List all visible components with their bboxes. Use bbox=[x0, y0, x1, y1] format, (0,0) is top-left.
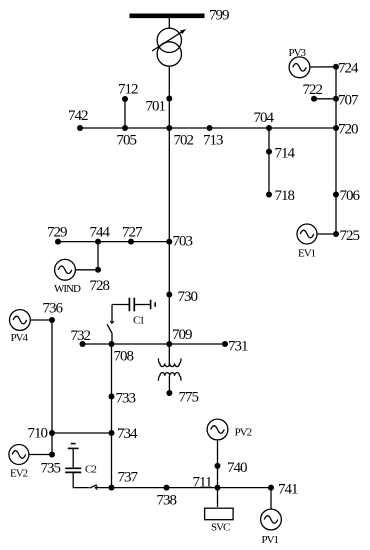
wire bbox=[112, 487, 272, 489]
svg-text:718: 718 bbox=[275, 188, 295, 204]
node 710 bbox=[49, 430, 55, 436]
node 701 bbox=[166, 96, 172, 102]
node 725 bbox=[333, 231, 339, 237]
svg-text:703: 703 bbox=[173, 234, 193, 250]
node 704 bbox=[266, 125, 272, 131]
node 727 bbox=[128, 239, 134, 245]
svg-text:727: 727 bbox=[122, 225, 143, 241]
transformer T1 (709 to 775) bbox=[158, 346, 181, 393]
wire bbox=[75, 269, 98, 271]
wire bbox=[51, 320, 53, 433]
svg-text:EV1: EV1 bbox=[298, 247, 316, 259]
node 741 bbox=[268, 485, 274, 491]
svg-text:C2: C2 bbox=[85, 464, 96, 476]
node 703 bbox=[166, 239, 172, 245]
wire bbox=[168, 66, 170, 128]
wire bbox=[314, 98, 336, 100]
svg-text:705: 705 bbox=[117, 133, 137, 149]
svg-text:732: 732 bbox=[71, 328, 91, 344]
ground (C1) bbox=[151, 300, 156, 310]
wire bbox=[29, 454, 52, 456]
substation bus 799 bbox=[130, 14, 205, 19]
node 713 bbox=[207, 125, 213, 131]
svg-text:708: 708 bbox=[114, 349, 134, 365]
svg-text:733: 733 bbox=[116, 391, 136, 407]
svg-text:707: 707 bbox=[338, 93, 359, 109]
node 740 bbox=[215, 463, 221, 469]
svg-text:711: 711 bbox=[193, 474, 212, 490]
wire bbox=[80, 127, 336, 129]
svg-text:735: 735 bbox=[41, 461, 61, 477]
switch (C1 branch) bbox=[107, 305, 114, 345]
node 735 bbox=[49, 452, 55, 458]
svg-text:704: 704 bbox=[254, 110, 275, 126]
svg-text:PV2: PV2 bbox=[235, 426, 252, 438]
svg-text:709: 709 bbox=[172, 327, 192, 343]
switch (C2 branch) bbox=[90, 485, 112, 490]
svg-text:WIND: WIND bbox=[54, 283, 81, 295]
svg-text:799: 799 bbox=[209, 8, 229, 24]
svg-text:734: 734 bbox=[117, 426, 138, 442]
svg-text:738: 738 bbox=[157, 493, 177, 509]
node 712 bbox=[122, 96, 128, 102]
wire bbox=[124, 99, 126, 128]
wire bbox=[72, 448, 74, 467]
svg-text:728: 728 bbox=[90, 278, 110, 294]
node 711 bbox=[215, 485, 221, 491]
capacitor C1 bbox=[112, 298, 150, 312]
node 742 bbox=[77, 125, 83, 131]
wire bbox=[30, 319, 52, 321]
node 728 bbox=[95, 267, 101, 273]
svg-text:744: 744 bbox=[90, 225, 111, 241]
svg-text:714: 714 bbox=[275, 146, 296, 162]
svg-text:EV2: EV2 bbox=[10, 468, 28, 480]
svg-text:724: 724 bbox=[338, 61, 359, 77]
svg-text:736: 736 bbox=[43, 301, 64, 317]
node 733 bbox=[109, 394, 115, 400]
wire bbox=[335, 67, 337, 234]
node 775 bbox=[166, 390, 172, 396]
PV source PV1 bbox=[261, 509, 282, 530]
node 744 bbox=[95, 239, 101, 245]
SVC compensator bbox=[205, 508, 234, 520]
node 722 bbox=[311, 96, 317, 102]
node 736 bbox=[49, 317, 55, 323]
svg-text:730: 730 bbox=[178, 289, 198, 305]
wire bbox=[168, 18, 170, 28]
PV source PV3 bbox=[289, 57, 310, 78]
PV source PV2 bbox=[207, 419, 228, 440]
node 708 bbox=[109, 341, 115, 347]
svg-text:PV1: PV1 bbox=[262, 534, 279, 546]
node 707 bbox=[333, 96, 339, 102]
node 730 bbox=[166, 292, 172, 298]
wire bbox=[83, 343, 226, 345]
svg-text:720: 720 bbox=[338, 122, 358, 138]
node 705 bbox=[122, 125, 128, 131]
ground (C2) bbox=[68, 444, 79, 449]
svg-text:713: 713 bbox=[203, 133, 223, 149]
svg-text:741: 741 bbox=[278, 482, 298, 498]
wire bbox=[58, 241, 169, 243]
capacitor C2 bbox=[65, 468, 81, 472]
svg-text:C1: C1 bbox=[133, 315, 144, 327]
svg-text:701: 701 bbox=[146, 99, 166, 115]
wire bbox=[52, 432, 112, 434]
svg-text:PV3: PV3 bbox=[289, 47, 307, 59]
svg-text:775: 775 bbox=[179, 390, 199, 406]
node 729 bbox=[55, 239, 61, 245]
svg-text:702: 702 bbox=[174, 133, 194, 149]
svg-text:740: 740 bbox=[227, 460, 247, 476]
node 702 bbox=[166, 125, 172, 131]
wire bbox=[270, 488, 272, 510]
node 731 bbox=[222, 341, 228, 347]
wire bbox=[111, 344, 113, 488]
voltage regulator (substation transformer) bbox=[152, 28, 186, 66]
svg-text:742: 742 bbox=[68, 108, 88, 124]
svg-text:731: 731 bbox=[228, 339, 248, 355]
svg-text:706: 706 bbox=[340, 188, 361, 204]
wire bbox=[217, 440, 219, 488]
svg-text:PV4: PV4 bbox=[11, 332, 29, 344]
wire bbox=[51, 433, 53, 455]
wire bbox=[168, 128, 170, 344]
node 734 bbox=[109, 430, 115, 436]
node 720 bbox=[333, 125, 339, 131]
wire bbox=[73, 473, 89, 488]
node 706 bbox=[333, 192, 339, 198]
svg-text:710: 710 bbox=[28, 426, 48, 442]
node 718 bbox=[266, 192, 272, 198]
svg-text:737: 737 bbox=[118, 470, 139, 486]
wire bbox=[217, 488, 219, 507]
svg-text:722: 722 bbox=[303, 82, 323, 98]
svg-text:729: 729 bbox=[47, 225, 67, 241]
wire bbox=[268, 128, 270, 195]
wire bbox=[317, 233, 336, 235]
svg-text:712: 712 bbox=[118, 82, 138, 98]
node 737 bbox=[109, 485, 115, 491]
node 724 bbox=[333, 64, 339, 70]
node 714 bbox=[266, 149, 272, 155]
PV source PV4 bbox=[10, 310, 31, 331]
node 709 bbox=[166, 341, 172, 347]
node 738 bbox=[164, 485, 170, 491]
svg-text:SVC: SVC bbox=[211, 522, 230, 534]
node 732 bbox=[80, 341, 86, 347]
EV charger EV1 bbox=[297, 224, 317, 244]
wire bbox=[97, 242, 99, 270]
wind turbine bbox=[55, 259, 76, 280]
wire bbox=[310, 66, 336, 68]
EV charger EV2 bbox=[9, 445, 29, 465]
svg-text:725: 725 bbox=[340, 228, 360, 244]
